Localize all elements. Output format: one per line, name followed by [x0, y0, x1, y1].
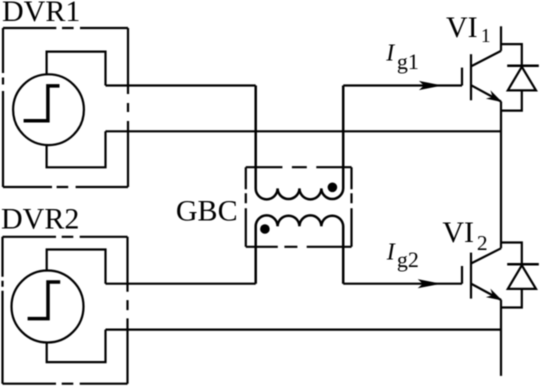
diode D1 top branch — [501, 44, 522, 65]
svg-text:VI: VI — [446, 11, 478, 44]
svg-text:VI: VI — [442, 216, 474, 249]
wire DVR1 return to VI1 emitter node — [106, 130, 502, 132]
DVR1 driver block rectangle (notched right side) — [47, 52, 106, 168]
GBC winding 1 polarity dot — [328, 183, 338, 193]
diode D2 triangle — [508, 265, 536, 289]
wire DVR2 return to VI2 emitter node — [106, 329, 502, 331]
svg-text:DVR2: DVR2 — [1, 203, 79, 236]
IGBT VI1 body bar — [470, 54, 472, 100]
wire VI2 emitter rail to bottom — [500, 300, 502, 376]
label VI1 — [446, 11, 491, 47]
diode D1 triangle — [508, 67, 536, 91]
GBC winding 1 (top) — [256, 86, 344, 200]
GBC winding 2 (bottom) — [256, 215, 344, 283]
DVR2 step symbol — [28, 282, 61, 319]
svg-text:g2: g2 — [397, 247, 419, 272]
label Ig1 — [385, 41, 419, 74]
IGBT VI2 collector diagonal — [471, 248, 501, 263]
diode D1 cathode bar — [507, 64, 539, 67]
wire GBC winding 2 to VI2 gate — [343, 283, 462, 285]
IGBT VI1 gate bar — [461, 68, 463, 86]
label Ig2 — [386, 239, 419, 272]
diode D2 top branch — [501, 243, 522, 264]
Ig2 current arrowhead — [418, 279, 442, 288]
wire VI1 emitter to VI2 collector rail — [500, 102, 502, 249]
svg-text:DVR1: DVR1 — [2, 0, 80, 28]
DVR1 step symbol — [24, 86, 60, 121]
label VI2 — [442, 216, 487, 255]
svg-text:g1: g1 — [397, 49, 419, 74]
svg-text:I: I — [386, 239, 396, 265]
DVR2 enclosure dash-dot box — [3, 237, 128, 384]
IGBT VI1 emitter diagonal — [471, 85, 501, 101]
wire DVR1 top output to GBC winding 1 — [106, 84, 256, 86]
diode D2 cathode bar — [507, 263, 539, 266]
diode D1 bottom branch — [501, 90, 522, 110]
IGBT VI1 emitter arrowhead — [486, 90, 505, 106]
IGBT VI1 collector diagonal — [471, 51, 501, 67]
diode D2 bottom branch — [501, 289, 522, 308]
svg-text:I: I — [385, 41, 395, 67]
GBC enclosure dash-dot box — [246, 167, 352, 247]
IGBT VI2 gate bar — [461, 266, 463, 284]
DVR2 driver block rectangle (notched right side) — [47, 250, 106, 363]
Ig1 current arrowhead — [419, 81, 443, 90]
IGBT VI2 emitter diagonal — [471, 284, 501, 300]
svg-text:1: 1 — [481, 26, 491, 47]
IGBT VI1 collector stub — [500, 26, 502, 51]
svg-text:GBC: GBC — [176, 194, 238, 227]
GBC winding 2 polarity dot — [260, 224, 270, 234]
DVR1 source circle — [13, 74, 84, 145]
wire DVR2 top output to GBC winding 2 — [106, 283, 256, 285]
DVR2 source circle — [12, 271, 84, 343]
IGBT VI2 emitter arrowhead — [486, 289, 505, 305]
IGBT VI2 body bar — [470, 253, 472, 299]
DVR1 enclosure dash-dot box — [3, 28, 128, 187]
wire GBC winding 1 to VI1 gate — [343, 84, 462, 86]
svg-text:2: 2 — [477, 231, 488, 255]
